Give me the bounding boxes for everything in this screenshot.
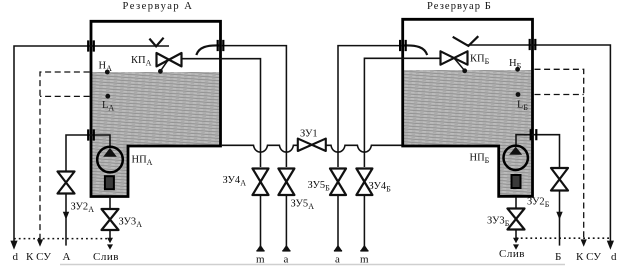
wire: ZU4B down to m <box>363 195 365 246</box>
terminal m right <box>360 245 368 251</box>
valve ZU2A <box>58 172 75 194</box>
arrow KSU right <box>581 239 587 246</box>
pump NPB <box>504 146 528 170</box>
wire: center transfer line with hops <box>222 145 402 152</box>
wire: dashed HB level line <box>535 69 584 241</box>
tank A liquid fill <box>92 72 219 195</box>
arrow d right <box>607 241 614 250</box>
flange tank A pump outlet <box>88 129 94 140</box>
arrow on line A <box>63 212 69 220</box>
valve ZU5B <box>330 169 346 196</box>
tank A outline <box>91 21 221 196</box>
svg-text:a: a <box>284 254 289 266</box>
pump NPA strainer box <box>105 176 114 189</box>
level dot LA <box>105 94 110 99</box>
valve ZU5A <box>278 169 294 196</box>
flange tank B pump outlet <box>531 129 537 140</box>
valve KPA <box>157 53 182 66</box>
wire: pump B discharge to ZU2B <box>516 135 560 168</box>
valve ZU4B <box>356 169 372 196</box>
vent symbol V tank A <box>149 38 163 47</box>
wire: ZU3A drop and drain <box>109 197 111 240</box>
arrow KSU left <box>37 239 43 246</box>
valve ZU3B <box>508 209 525 230</box>
wire: vent line A (d line) <box>14 46 169 244</box>
flange tank B right vent <box>530 39 536 50</box>
flange tank A right crook <box>218 40 224 51</box>
svg-text:Слив: Слив <box>93 251 119 263</box>
wire: ZU2A down to A terminal <box>65 194 67 246</box>
svg-text:d: d <box>611 251 617 263</box>
vent symbol V tank B <box>453 36 479 46</box>
terminal m left <box>256 245 264 251</box>
flange tank A left vent <box>88 40 94 51</box>
wire: dashed LA level line <box>40 95 90 97</box>
crook pipe inside tank A <box>196 45 219 55</box>
wire: ZU4A down to m <box>260 195 262 246</box>
wire: bottom dotted bus right <box>516 237 610 239</box>
pump NPA <box>97 147 123 173</box>
tank B outline <box>403 19 533 196</box>
wire: KPB line to ZU4B drop <box>364 58 440 167</box>
wire: ZU3B drop and drain <box>515 198 517 240</box>
wire: vent line B (d line) <box>467 45 610 244</box>
terminal a left <box>282 245 290 251</box>
valve ZU3A <box>102 209 119 230</box>
level dot HB <box>515 67 520 72</box>
valve KPB <box>441 51 468 64</box>
wire: ZU5B down to a <box>337 195 339 246</box>
wire: pump A discharge to ZU2A <box>66 135 110 172</box>
valve ZU2B <box>551 168 568 191</box>
svg-text:Резервуар А: Резервуар А <box>123 1 194 12</box>
svg-text:a: a <box>335 254 340 266</box>
double arrow drain A <box>107 238 113 250</box>
level dot HA <box>105 70 110 75</box>
svg-text:d: d <box>13 251 19 263</box>
svg-text:А: А <box>63 251 71 263</box>
float link KPB <box>454 58 464 70</box>
wire: bottom dotted bus left <box>14 238 110 240</box>
svg-text:К СУ: К СУ <box>576 251 601 263</box>
wire: KPA line to ZU4A drop <box>182 59 261 167</box>
svg-text:ЗУ1: ЗУ1 <box>300 128 318 139</box>
float link KPA <box>161 59 169 71</box>
svg-text:m: m <box>256 254 265 266</box>
wire: ZU2B down to B terminal <box>559 191 561 246</box>
wire: dashed LB level line <box>535 94 584 96</box>
level dot LB <box>516 92 521 97</box>
wire: crook suction line B outside to ZU5B drop <box>338 46 402 167</box>
svg-text:m: m <box>360 254 369 266</box>
svg-text:К СУ: К СУ <box>26 251 51 263</box>
wire: dashed HA level line <box>40 72 90 241</box>
svg-text:Слив: Слив <box>499 248 525 260</box>
arrow on line B <box>556 212 562 220</box>
crook pipe inside tank B <box>404 45 427 55</box>
svg-text:Б: Б <box>555 251 561 263</box>
svg-text:Резервуар Б: Резервуар Б <box>427 1 492 12</box>
wire: ZU5A down to a <box>285 195 287 246</box>
valve ZU1 <box>298 139 326 151</box>
double arrow drain B <box>513 238 519 250</box>
scan artifact streak <box>60 264 565 266</box>
pump NPB strainer box <box>512 175 521 188</box>
arrow d left <box>10 241 17 250</box>
flange tank B left crook <box>400 40 406 51</box>
valve ZU4A <box>253 169 269 196</box>
terminal a right <box>334 245 342 251</box>
tank B liquid fill <box>404 70 531 195</box>
wire: crook suction line A outside to ZU5A drop <box>221 46 286 167</box>
